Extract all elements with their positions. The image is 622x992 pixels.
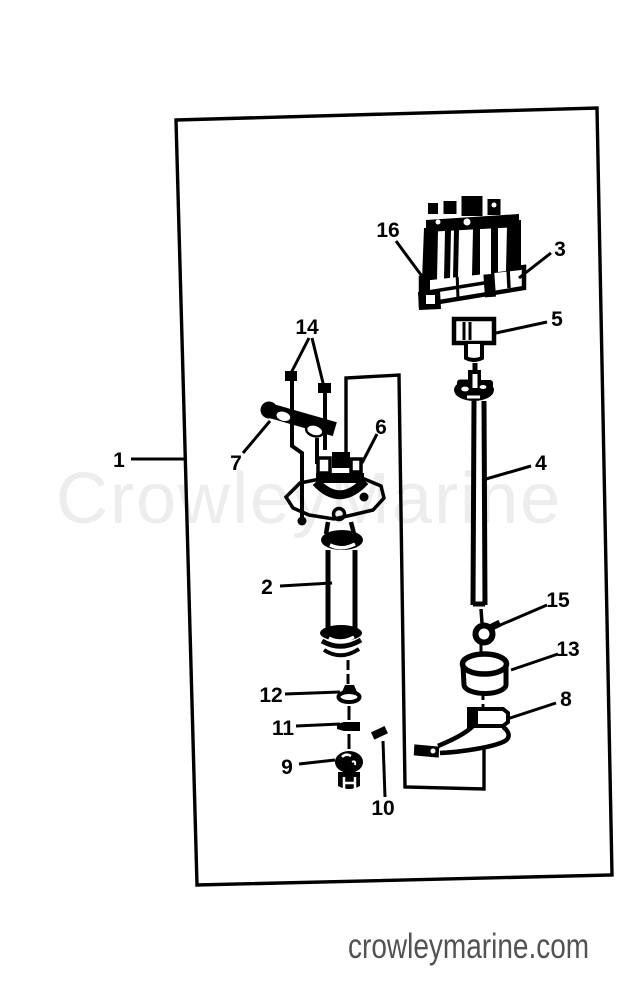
distributor cap (parts 16/3) — [418, 196, 524, 310]
dash clip to drum — [480, 644, 483, 652]
part 8 sensor and wire — [414, 709, 509, 758]
svg-text:13: 13 — [556, 638, 579, 661]
wire connector — [414, 744, 440, 757]
leader 5 — [496, 322, 547, 333]
part 15 clip — [476, 623, 501, 643]
leader 7 — [243, 421, 270, 453]
housing collar — [321, 530, 363, 550]
leader 4 — [486, 466, 531, 479]
enclosure frame (part 1 outline) — [176, 108, 612, 885]
part 7 clamp — [261, 402, 337, 443]
svg-text:7: 7 — [230, 452, 242, 475]
svg-text:8: 8 — [560, 688, 572, 711]
svg-text:16: 16 — [376, 219, 399, 242]
leader 8 — [507, 703, 556, 719]
leader 12 — [285, 692, 340, 694]
leader 15 — [491, 605, 547, 629]
leaders 14 — [291, 338, 324, 387]
inner bracket outline — [346, 375, 484, 789]
part 11 coupling — [337, 722, 360, 731]
svg-text:5: 5 — [551, 308, 563, 331]
leader 3 — [519, 253, 551, 278]
dashes drum to sensor — [482, 694, 485, 708]
screws (14) — [285, 371, 331, 450]
wire — [438, 726, 473, 746]
svg-text:14: 14 — [295, 316, 319, 339]
leader 9 — [299, 760, 335, 764]
cap towers — [422, 220, 521, 281]
drive gear / washer on shaft 4 — [454, 363, 494, 401]
dash to part 9 — [348, 734, 351, 749]
housing neck — [326, 522, 354, 534]
part 13 drum — [463, 654, 507, 694]
part 9 nut — [335, 751, 363, 789]
leader 11 — [296, 724, 340, 726]
dash shaft to clip — [481, 609, 482, 623]
svg-text:10: 10 — [371, 797, 394, 820]
leader 1 — [131, 458, 184, 461]
part 2 housing tube — [320, 550, 362, 655]
bottom rings — [320, 625, 362, 641]
distributor body bracket lines — [292, 434, 302, 524]
svg-text:4: 4 — [535, 452, 547, 475]
leader 6 — [362, 434, 377, 463]
svg-text:1: 1 — [113, 449, 125, 472]
mounting flange — [286, 477, 384, 520]
dash to part 12 — [347, 660, 350, 684]
svg-text:11: 11 — [272, 717, 295, 740]
part 12 washer — [339, 685, 360, 702]
part 4 main shaft — [473, 401, 485, 605]
svg-text:crowleymarine.com: crowleymarine.com — [348, 926, 589, 966]
cap top knobs — [428, 203, 438, 214]
svg-text:9: 9 — [281, 756, 293, 779]
svg-text:2: 2 — [261, 576, 273, 599]
rotor (part 6) — [316, 452, 365, 495]
svg-text:12: 12 — [259, 684, 282, 707]
dash to part 11 — [348, 706, 351, 720]
svg-text:15: 15 — [546, 589, 570, 612]
leader 13 — [511, 654, 558, 670]
leader 16 — [396, 241, 427, 283]
leader 2 — [280, 583, 332, 586]
svg-text:3: 3 — [554, 238, 566, 261]
part 5 connector block — [454, 319, 494, 360]
cap base — [421, 267, 524, 305]
part 10 pin — [371, 726, 388, 797]
